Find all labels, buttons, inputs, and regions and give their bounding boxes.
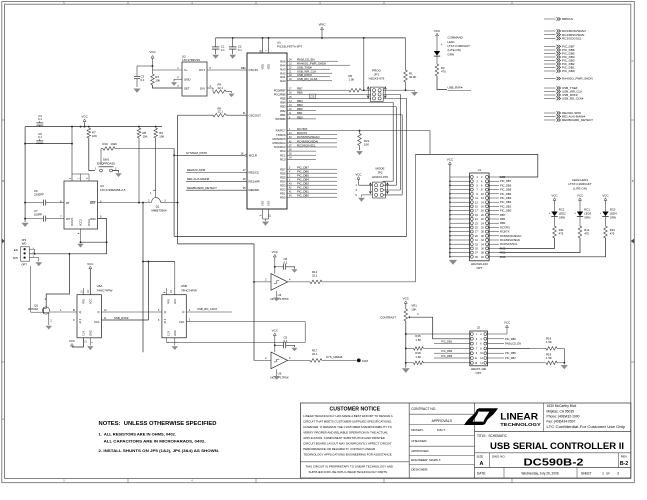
svg-text:PIC_DB0: PIC_DB0 (562, 69, 575, 73)
svg-text:RB6: RB6 (297, 91, 303, 95)
svg-text:R10: R10 (103, 142, 109, 146)
svg-text:PIC_DB5: PIC_DB5 (500, 188, 512, 192)
svg-text:RD1: RD1 (280, 191, 286, 195)
border zone ticks (127, 2, 129, 5)
svg-text:2N7002: 2N7002 (28, 307, 39, 311)
svg-text:PIC_DB4: PIC_DB4 (441, 349, 452, 353)
svg-text:PIC_DB0: PIC_DB0 (297, 194, 309, 198)
svg-text:MMBT3904: MMBT3904 (152, 209, 167, 213)
svg-text:1.5K: 1.5K (546, 356, 552, 360)
svg-text:HD2X3-079: HD2X3-079 (372, 175, 388, 179)
wire J1 10M loop (416, 154, 538, 177)
net stub PIC_DB5 (544, 53, 556, 55)
svg-text:10K: 10K (143, 135, 148, 139)
svg-text:Phone: (408)432-1900: Phone: (408)432-1900 (547, 414, 580, 418)
power flag VCC for LED4 (604, 198, 607, 201)
wire R3 to U2 SET (153, 85, 183, 88)
svg-text:TITLE: SCHEMATIC: TITLE: SCHEMATIC (477, 434, 508, 438)
transistor Q2 2N7002 (42, 307, 49, 314)
wire ground rail second (25, 143, 72, 145)
resistor R21 (358, 134, 362, 146)
svg-text:OPT: OPT (476, 371, 482, 375)
power flag VCC for U4 (273, 254, 276, 257)
wire U4 ground stub (273, 298, 279, 302)
svg-text:RA1: RA1 (280, 75, 286, 79)
svg-text:74HC74PW: 74HC74PW (97, 288, 113, 292)
svg-text:RA5: RA5 (280, 59, 286, 63)
buffer U6 NC7SP17P5X (271, 352, 288, 369)
wire return bus to MCLR net (174, 235, 407, 237)
svg-text:OPT: OPT (476, 266, 482, 270)
wire Q1 emitter (161, 202, 178, 204)
date row (503, 467, 505, 478)
svg-text:VCC: VCC (602, 193, 609, 197)
wire VCC to U2 V+ (152, 58, 154, 70)
svg-text:THIS CIRCUIT IS PROPRIETARY TO: THIS CIRCUIT IS PROPRIETARY TO LINEAR TE… (306, 464, 393, 468)
wire U3 GND branch (81, 241, 107, 243)
svg-text:RE1/WR: RE1/WR (249, 179, 260, 183)
svg-text:PRE: PRE (83, 299, 86, 304)
svg-text:0.1: 0.1 (284, 339, 288, 343)
svg-text:0.1: 0.1 (238, 48, 242, 52)
svg-text:PIC_DB1: PIC_DB1 (441, 339, 452, 343)
svg-text:RC4/MISO/SDAI: RC4/MISO/SDAI (500, 238, 520, 242)
svg-text:MOSI/RC5: MOSI/RC5 (273, 137, 286, 141)
svg-text:49.9K: 49.9K (409, 75, 416, 79)
wire U3 GND pin (80, 229, 82, 243)
svg-text:22.1: 22.1 (218, 86, 224, 90)
svg-text:PIC_DB0: PIC_DB0 (505, 337, 516, 341)
svg-text:22.1: 22.1 (218, 110, 224, 114)
svg-text:475: 475 (559, 232, 564, 236)
wire U2 OUT to U1 OSCIN (207, 69, 247, 71)
svg-text:0.1: 0.1 (38, 135, 42, 139)
svg-text:10K: 10K (364, 143, 369, 147)
svg-text:TX/RC6: TX/RC6 (276, 133, 286, 137)
svg-text:Wednesday, July 26, 2006: Wednesday, July 26, 2006 (521, 471, 558, 475)
svg-text:VSS: VSS (261, 201, 265, 206)
svg-text:J1: J1 (478, 168, 482, 172)
svg-text:VCC: VCC (81, 115, 88, 119)
svg-text:1.5K: 1.5K (415, 355, 421, 359)
svg-text:VCC3: VCC3 (80, 219, 83, 226)
svg-text:D: D (97, 310, 99, 314)
wire J2 left pin labels (434, 343, 470, 345)
wire U5B CLK loop (186, 321, 305, 323)
wire JP1 right pins (383, 89, 414, 91)
power flag VCC for U6 (273, 333, 276, 336)
svg-text:VCC: VCC (355, 172, 362, 176)
svg-text:PIC_DB7: PIC_DB7 (505, 356, 516, 360)
wire WD to Q2 drain (46, 254, 69, 304)
ground below R16/R19 (563, 363, 565, 365)
svg-text:SUPPLIED FOR USE WITH LINEAR T: SUPPLIED FOR USE WITH LINEAR TECHNOLOGY … (309, 470, 388, 474)
svg-text:VCC: VCC (434, 29, 441, 33)
net stub RE2/I2C-SPI# (544, 112, 556, 114)
shunt arrows JP1 (367, 87, 370, 98)
wire J2 pin1 from VR1 rail (406, 333, 471, 335)
svg-text:VCC: VCC (504, 321, 511, 325)
wire R10 to SYSTEM_RST net (115, 148, 174, 150)
wire Q2 drain to U5A (50, 311, 77, 313)
size/dwg/rev row (489, 453, 491, 468)
svg-text:RE0/BOARD_DETECT: RE0/BOARD_DETECT (562, 118, 593, 122)
wire J1 left pin stubs (450, 176, 471, 178)
svg-text:USB_RD_CLK#: USB_RD_CLK# (562, 97, 584, 101)
svg-text:PIC_DB1: PIC_DB1 (500, 204, 512, 208)
svg-text:DESIGNER:: DESIGNER: (411, 467, 428, 471)
ground U2 pin 2 (171, 82, 177, 86)
flip-flop U5A 74HC74PW (77, 295, 101, 338)
svg-text:VDD: VDD (261, 64, 265, 70)
svg-text:GRN: GRN (610, 216, 616, 220)
supervisor U3 LTC1726EMS8-2.5 (64, 181, 98, 229)
svg-text:RT: RT (66, 201, 70, 205)
svg-text:22.1: 22.1 (312, 274, 318, 278)
wire U3 supply stubs (71, 127, 73, 181)
resistor R4 (207, 87, 213, 89)
svg-text:APPLICATION. COMPONENT SUBSTIT: APPLICATION. COMPONENT SUBSTITUTION AND … (303, 436, 384, 440)
svg-text:WD: WD (22, 242, 27, 246)
ground left rail (22, 223, 29, 227)
svg-text:RB4: RB4 (280, 101, 286, 105)
svg-text:RD0: RD0 (280, 195, 286, 199)
svg-text:VDD: VDD (267, 64, 271, 70)
svg-text:RA3: RA3 (280, 67, 286, 71)
svg-text:0.1: 0.1 (221, 48, 225, 52)
svg-text:VCC2S: VCC2S (71, 217, 74, 226)
svg-text:RST: RST (90, 201, 96, 205)
svg-text:10K: 10K (411, 307, 416, 311)
svg-text:Milpitas, CA 95035: Milpitas, CA 95035 (547, 409, 575, 413)
flip-flop U5B 74HC74PW (162, 295, 186, 338)
shunt arrows JP2 (369, 183, 372, 194)
resistor R8 (137, 128, 141, 138)
svg-text:1630 McCarthy Blvd.: 1630 McCarthy Blvd. (547, 404, 578, 408)
net stub PIC_DB2 (544, 63, 556, 65)
wire U3 RST to Q1 base (98, 202, 152, 204)
svg-text:RA5/LCD_EN: RA5/LCD_EN (505, 342, 521, 346)
wire JP1 to JP2 and bus (399, 94, 401, 190)
power flag VCC at JP2 (357, 177, 360, 180)
svg-text:V+: V+ (184, 68, 188, 72)
svg-text:GRN: GRN (448, 52, 454, 56)
wire left vertical to ground (24, 127, 26, 222)
svg-text:VCC: VCC (577, 193, 584, 197)
svg-text:VCC: VCC (149, 50, 156, 54)
svg-text:RB5: RB5 (280, 97, 286, 101)
wire JP2 pin5 to ground (362, 194, 373, 196)
transistor Q1 MMBT3904 (151, 197, 161, 202)
svg-text:NC7SP17P5X: NC7SP17P5X (270, 376, 288, 380)
svg-text:RD4: RD4 (280, 179, 286, 183)
svg-text:PIC16LF877A-I/PT: PIC16LF877A-I/PT (277, 45, 303, 49)
wire RB4 to JP2 (392, 103, 394, 182)
net stub RC4/MISO/SDAI (544, 34, 556, 36)
svg-text:Fax: (408)434-0507: Fax: (408)434-0507 (547, 420, 576, 424)
wire RB3 to JP2 (395, 107, 397, 186)
wire Q1 node down to bus (142, 203, 144, 353)
svg-text:OSCIN: OSCIN (249, 68, 258, 72)
svg-text:VCC: VCC (551, 193, 558, 197)
power flag VCC for LED3 (579, 198, 582, 201)
svg-text:ENGINEER: MARK T.: ENGINEER: MARK T. (411, 458, 441, 462)
svg-text:RB1: RB1 (280, 113, 286, 117)
svg-text:RB5/CS: RB5/CS (562, 17, 573, 21)
svg-text:74HC74PW: 74HC74PW (181, 288, 197, 292)
svg-text:SIZE: SIZE (477, 455, 484, 459)
svg-text:GND: GND (174, 330, 177, 336)
wire J1 right pin stubs with labels (489, 176, 500, 178)
svg-text:PIC_DB5: PIC_DB5 (505, 351, 516, 355)
buffer U4 NC7SP17P5X (271, 274, 288, 291)
svg-text:PRE: PRE (167, 299, 170, 304)
svg-text:OPT: OPT (21, 263, 27, 267)
U1 port D pins with PIC_DB labels (287, 168, 337, 170)
wire VR1 wiper to J2 pin3 (410, 317, 471, 339)
wire SW1 to ground (112, 171, 118, 173)
svg-text:APPROVALS: APPROVALS (432, 419, 453, 423)
wire J2 right pins (488, 338, 505, 340)
svg-text:RC0: RC0 (280, 157, 286, 161)
svg-text:RD2: RD2 (280, 187, 286, 191)
wire U5A CLR/VCC (72, 338, 84, 347)
customer notice box (408, 403, 410, 478)
wire JP3 pin1 strap (29, 248, 34, 250)
svg-text:B-2: B-2 (620, 461, 628, 467)
svg-text:LINEAR: LINEAR (500, 411, 538, 422)
svg-text:B: B (2, 179, 4, 183)
ground below VR1 (402, 368, 410, 373)
net stub PIC_DB7 (544, 46, 556, 48)
svg-text:10K: 10K (155, 78, 160, 82)
ground below C1 (212, 55, 219, 59)
svg-text:RC6/TX: RC6/TX (500, 230, 510, 234)
svg-text:U5B: U5B (181, 284, 187, 288)
svg-text:WT: WT (66, 217, 71, 221)
wire RC2 to LED2 resistor (499, 238, 555, 248)
svg-text:SYS_10MHZ: SYS_10MHZ (326, 355, 343, 359)
wire VPIC rail (216, 37, 406, 39)
svg-text:CONTRAST: CONTRAST (380, 316, 396, 320)
wire Q2 gate (30, 266, 32, 312)
net SYSTEM_RST# wire to MCLR (174, 154, 245, 156)
resistor R7 (87, 128, 91, 138)
ground below C2 (229, 55, 236, 59)
svg-text:EN: EN (14, 248, 18, 252)
net stub USB_RD_CLK# (544, 98, 556, 100)
wire RC0 to LED4 resistor (499, 238, 606, 257)
svg-text:RD5: RD5 (280, 175, 286, 179)
svg-text:USB SERIAL CONTROLLER II: USB SERIAL CONTROLLER II (490, 441, 624, 451)
svg-text:NOTES: UNLESS OTHERWISE SPECI: NOTES: UNLESS OTHERWISE SPECIFIED (99, 421, 217, 427)
ground below J1 left bus (449, 260, 457, 265)
wire LED1 to USB_RXF# (437, 76, 447, 90)
svg-text:VERIFY PROPER AND RELIABLE OPE: VERIFY PROPER AND RELIABLE OPERATION IN … (303, 430, 388, 434)
svg-text:GND: GND (184, 78, 190, 82)
svg-text:VCC: VCC (69, 339, 76, 343)
svg-text:16K: 16K (92, 134, 97, 138)
svg-text:TECHNOLOGY APPLICATIONS ENGINE: TECHNOLOGY APPLICATIONS ENGINEERING FOR … (303, 453, 392, 457)
svg-text:RC3/SCK/SCL: RC3/SCK/SCL (297, 143, 316, 147)
wire R14 output to SYS_10MHZ loop (322, 281, 416, 283)
svg-text:CLR: CLR (167, 331, 170, 336)
svg-text:1: 1 (602, 471, 604, 475)
net stub PIC_DB6 (544, 49, 556, 51)
svg-text:A: A (480, 461, 484, 467)
svg-text:APPROVED:: APPROVED: (411, 449, 429, 453)
svg-text:RE0/RD: RE0/RD (249, 188, 260, 192)
net RE0/BOARD_DETECT wire (186, 189, 247, 191)
svg-text:PIC_DB7: PIC_DB7 (500, 179, 512, 183)
svg-text:3: 3 (617, 471, 619, 475)
resistor R9 (154, 128, 158, 138)
wire U6 ground stub (273, 376, 279, 380)
svg-text:VSS: VSS (267, 201, 271, 206)
svg-text:+: + (441, 43, 443, 47)
svg-text:(LITE-ON): (LITE-ON) (573, 186, 587, 190)
svg-text:1.5K: 1.5K (349, 78, 355, 82)
net stub USB_WR_CLK (544, 91, 556, 93)
svg-text:VCC: VCC (87, 262, 94, 266)
net stub RC5/MOSI/SDAO (544, 30, 556, 32)
svg-text:DIV: DIV (200, 86, 205, 90)
svg-text:RC2: RC2 (280, 149, 286, 153)
svg-text:RA0: RA0 (280, 79, 286, 83)
svg-text:TECHNOLOGY: TECHNOLOGY (500, 422, 542, 427)
svg-text:RB0: RB0 (500, 221, 506, 225)
svg-text:10M: 10M (362, 359, 368, 363)
svg-text:RC1: RC1 (280, 153, 286, 157)
svg-text:VCC: VCC (272, 250, 279, 254)
svg-text:0.1: 0.1 (38, 117, 42, 121)
power flag VCC for LED2 (553, 198, 556, 201)
svg-text:RB1: RB1 (500, 217, 506, 221)
net stub USB_TXE# (544, 87, 556, 89)
title rows (475, 431, 631, 433)
net stub RB5/CS (544, 18, 556, 20)
svg-text:100PF: 100PF (34, 212, 43, 216)
wire U3 WDI down to bus (98, 219, 107, 254)
power flag VCC for LED1 (436, 33, 439, 36)
net stub PIC_DB4 (544, 56, 556, 58)
svg-text:RE1:AUX-MAIN#: RE1:AUX-MAIN# (187, 177, 210, 181)
ground for C9 (291, 348, 297, 352)
svg-text:475: 475 (441, 70, 446, 74)
svg-text:RD3: RD3 (280, 183, 286, 187)
wire U5A CLK net USB_RXF# (101, 319, 148, 321)
svg-text:USB_RXF#: USB_RXF# (448, 85, 463, 89)
svg-text:INT/RB0: INT/RB0 (275, 117, 286, 121)
capacitor C9 (275, 344, 284, 346)
wire buffer input bus (178, 243, 254, 245)
svg-text:CONTRACT NO.: CONTRACT NO. (411, 407, 436, 411)
svg-text:VCC: VCC (272, 329, 279, 333)
svg-text:PIC_DB3: PIC_DB3 (500, 196, 512, 200)
wire VPP from VPIC rail to JP1 (363, 38, 365, 90)
wire U5A outputs (101, 311, 161, 313)
wire RC1 to LED3 resistor (499, 238, 580, 253)
svg-text:102K: 102K (111, 142, 118, 146)
svg-text:PGC/RB6: PGC/RB6 (274, 92, 286, 96)
ground for C8 (291, 269, 297, 273)
svg-text:CLK: CLK (179, 320, 185, 324)
svg-text:RB0: RB0 (297, 115, 303, 119)
oscillator U2 LTC1799CS5 (182, 62, 207, 96)
svg-text:1. ALL RESISTORS ARE IN OHMS,: 1. ALL RESISTORS ARE IN OHMS, 0402. (99, 431, 177, 436)
wire RB1 to JP2 (401, 115, 403, 195)
svg-text:A: A (2, 417, 4, 421)
capacitor C2 (232, 38, 234, 47)
svg-text:RE2/CS: RE2/CS (249, 170, 260, 174)
svg-text:1.5K: 1.5K (415, 338, 421, 342)
svg-text:NC7SP17P5X: NC7SP17P5X (270, 297, 288, 301)
svg-text:CIRCUIT BOARD LAYOUT MAY SIGNI: CIRCUIT BOARD LAYOUT MAY SIGNIFICANTLY A… (303, 442, 392, 446)
wire VCC rail left (25, 126, 162, 128)
microcontroller U1 PIC16LF877A-I/PT (247, 53, 287, 209)
capacitor C3 (137, 65, 153, 67)
wire R16/R19 to ground (563, 348, 565, 362)
svg-text:RC3/SCK/SCL: RC3/SCK/SCL (500, 242, 518, 246)
Linear Technology logo (479, 408, 498, 425)
capacitor C8 (275, 266, 284, 268)
wire U5B VCC rail (143, 261, 175, 263)
svg-text:VPIC: VPIC (318, 23, 326, 27)
svg-text:WDI: WDI (90, 217, 96, 221)
svg-text:DWG NO.: DWG NO. (492, 455, 506, 459)
ground U5A GND pin (89, 338, 91, 346)
svg-text:RA2: RA2 (280, 71, 286, 75)
svg-text:10K: 10K (159, 135, 164, 139)
wire watchdog bus (29, 253, 106, 255)
power flag VCC at J2 right (506, 325, 509, 328)
svg-text:C: C (632, 59, 634, 63)
wire U1 VDD stubs (262, 38, 264, 53)
power flag VCC left rail (83, 119, 86, 122)
svg-text:DIS: DIS (13, 256, 18, 260)
svg-text:RE0/BOARD_DETECT: RE0/BOARD_DETECT (187, 186, 217, 190)
border center arrows (631, 239, 635, 244)
svg-text:RA4/ISO_PWR_SHDN: RA4/ISO_PWR_SHDN (562, 77, 593, 81)
svg-text:PIC_DB6: PIC_DB6 (500, 183, 512, 187)
svg-text:USB_RD_CLK#: USB_RD_CLK# (197, 307, 217, 311)
svg-text:RC5/MOSI/SDAO: RC5/MOSI/SDAO (500, 234, 521, 238)
svg-text:PIC_DB4: PIC_DB4 (500, 192, 512, 196)
svg-text:MCLR: MCLR (249, 154, 257, 158)
ground after R4 (226, 91, 232, 93)
svg-text:OUT: OUT (199, 68, 205, 72)
resistor R11 (553, 226, 557, 238)
svg-text:475: 475 (610, 232, 615, 236)
svg-text:PIC_DB0: PIC_DB0 (500, 209, 512, 213)
net stub RC3/SCK/SCL (544, 37, 556, 39)
power flag VCC for VR1 (404, 301, 407, 304)
net stub PIC_DB0 (544, 70, 556, 72)
svg-text:U5A: U5A (97, 284, 103, 288)
net stub RE1:AUX-MAIN# (544, 116, 556, 118)
ground U5B GND pin (174, 338, 176, 346)
svg-text:0.1: 0.1 (141, 78, 145, 82)
svg-text:CIRCUIT THAT MEETS CUSTOMER-SU: CIRCUIT THAT MEETS CUSTOMER-SUPPLIED SPE… (303, 419, 392, 423)
resistor R2 (435, 64, 439, 76)
net SYS_10MHZ wire and test point 10M (322, 359, 357, 361)
svg-text:RC7/RX: RC7/RX (500, 225, 510, 229)
ground U1 VSS (265, 219, 267, 221)
power flag VCC (U2 supply) (151, 56, 154, 59)
svg-text:PGD/RB7: PGD/RB7 (274, 88, 286, 92)
svg-text:B: B (632, 179, 634, 183)
svg-text:RD7: RD7 (280, 167, 286, 171)
